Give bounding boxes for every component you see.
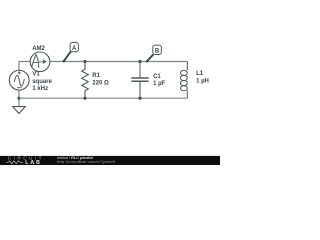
svg-text:C1: C1 (153, 74, 161, 80)
ground (13, 107, 26, 114)
resistor R1 (82, 62, 89, 99)
junction dot C1 top (138, 60, 141, 63)
svg-text:R1: R1 (92, 73, 100, 79)
capacitor C1 (131, 62, 148, 99)
ammeter AM2 (30, 52, 50, 72)
svg-text:1 µF: 1 µF (153, 81, 165, 87)
svg-text:A: A (72, 46, 77, 52)
svg-text:B: B (155, 49, 160, 55)
node junction dot (ground rail) (17, 97, 20, 100)
voltage source V1 (9, 70, 29, 90)
junction dot C1 bottom (138, 97, 141, 100)
svg-text:1 µH: 1 µH (196, 78, 209, 84)
footer logo resistor zigzag (6, 161, 23, 164)
svg-text:220 Ω: 220 Ω (92, 80, 109, 86)
svg-text:1 kHz: 1 kHz (32, 86, 48, 92)
wire top rail (ammeter to L1) (50, 61, 188, 63)
svg-text:LAB: LAB (25, 160, 42, 165)
junction dot R1 bottom (83, 97, 86, 100)
svg-text:V1: V1 (32, 72, 40, 78)
wire bottom rail (19, 97, 187, 99)
svg-text:L1: L1 (196, 71, 204, 77)
svg-text:square: square (32, 79, 52, 85)
inductor L1 (181, 62, 188, 99)
node B flag (146, 45, 162, 63)
junction dot R1 top (83, 60, 86, 63)
svg-text:AM2: AM2 (32, 46, 45, 52)
wire V1 bottom to ground (18, 90, 20, 107)
footer bar (0, 156, 220, 165)
svg-text:http://circuitlab.com/c/7pwvc9: http://circuitlab.com/c/7pwvc9 (57, 159, 116, 164)
node A flag (63, 42, 79, 62)
wire top rail left segment (V1 top to ammeter) (19, 62, 30, 71)
